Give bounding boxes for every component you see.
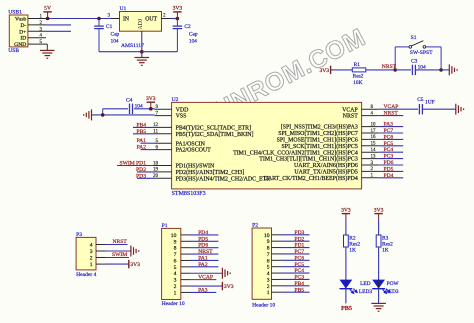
svg-text:UART_TX/AIN5(HS)PD5: UART_TX/AIN5(HS)PD5 (294, 169, 358, 176)
wire net PC3 (379, 158, 404, 160)
net label NRST at R1 (382, 64, 397, 70)
wire P1 VCAP (190, 279, 216, 281)
svg-text:PD3: PD3 (136, 173, 146, 179)
net label PC5 (384, 141, 394, 147)
ground GND of USB1 (40, 50, 55, 58)
svg-text:PD5: PD5 (384, 166, 394, 172)
svg-text:PD2(HS)/AIN3[TIM2_CH3]: PD2(HS)/AIN3[TIM2_CH3] (176, 169, 245, 176)
svg-text:[SPI_NSS]TIM2_CH3/(HS)PA3: [SPI_NSS]TIM2_CH3/(HS)PA3 (281, 124, 358, 131)
net label SWIM at P3 (112, 252, 127, 258)
U2 right pin numbers (371, 105, 377, 179)
resistor R3 Res2 1K (376, 235, 393, 253)
svg-text:C2: C2 (184, 24, 191, 30)
net label PB5 (136, 129, 146, 135)
wire net PC7 (379, 132, 404, 134)
svg-text:PD1(HS)/SWIN: PD1(HS)/SWIN (176, 163, 215, 170)
wire P1 PA1 (190, 259, 218, 261)
svg-text:3V3: 3V3 (130, 262, 140, 268)
net label PD1 (136, 161, 146, 167)
wire net PA3 (379, 126, 404, 128)
ground of regulator ADJ rail (135, 58, 150, 66)
wire net PB4 (133, 126, 155, 128)
capacitor C2 104 (173, 19, 198, 52)
net label PD2 at P2 (294, 236, 304, 242)
wire NRST node to C3 (395, 69, 411, 71)
svg-text:Header 4: Header 4 (76, 272, 97, 278)
svg-text:Res2: Res2 (353, 74, 364, 80)
power 3V3 at P1 (222, 282, 233, 290)
ground at P3 pin3 (131, 246, 139, 257)
svg-text:STM8S103F3: STM8S103F3 (172, 191, 206, 197)
svg-text:3: 3 (267, 277, 270, 283)
voltage regulator U1 AMS1117 (120, 6, 162, 49)
svg-text:1UF: 1UF (425, 100, 435, 106)
wire P3 SWIM (106, 257, 130, 259)
wire P2 PC4 (281, 272, 310, 274)
wire 3V3 to R3 (378, 219, 380, 235)
wire P2 PC7 (281, 253, 310, 255)
svg-text:PB4(T)/I2C_SCL[TADC_ETR]: PB4(T)/I2C_SCL[TADC_ETR] (176, 125, 251, 132)
net label PA3 at P1 (198, 287, 208, 293)
wire P2 PD2 (281, 240, 310, 242)
svg-text:P1: P1 (162, 223, 168, 229)
svg-text:PA2/OSCOUT: PA2/OSCOUT (176, 148, 212, 154)
svg-text:PD4: PD4 (198, 230, 208, 236)
switch S1 SW-SPST (395, 35, 441, 70)
U1 pin numbers 3 2 1 (108, 14, 167, 19)
wire P1 PD4 (190, 234, 218, 236)
svg-text:9: 9 (267, 239, 270, 245)
wire ADJ down to ground rail (141, 40, 143, 58)
net label SWIM on PD1 wire (120, 161, 135, 167)
svg-text:1K: 1K (349, 247, 356, 253)
svg-text:PC7: PC7 (294, 249, 304, 255)
svg-text:PA1: PA1 (137, 138, 147, 144)
wire net PD5 (379, 170, 404, 172)
connector P1 Header 10 (162, 223, 185, 307)
ground at power LED (371, 303, 386, 311)
wire P1 PA3 (190, 291, 216, 293)
net label PB4 at P2 (294, 281, 304, 287)
wire P1 PD5 (190, 240, 218, 242)
wire R1 to NRST node (366, 69, 395, 71)
svg-text:PC6: PC6 (294, 255, 304, 261)
net label PB4 (136, 122, 146, 128)
svg-text:P3: P3 (76, 232, 82, 238)
ground at VCAP filter (456, 104, 464, 115)
wire NRST at U2 (379, 115, 404, 117)
svg-text:IN: IN (123, 16, 130, 22)
capacitor C5 1UF (417, 97, 434, 115)
svg-text:3V3: 3V3 (224, 284, 234, 290)
wire net PA1 (141, 142, 155, 144)
svg-text:PD5: PD5 (198, 236, 208, 242)
svg-text:1: 1 (174, 290, 177, 296)
svg-text:PB5: PB5 (341, 305, 352, 312)
net label PD6 at P1 (198, 243, 208, 249)
wire C4 branch down to VSS rail (102, 109, 104, 115)
net label PD1 at P2 (294, 243, 304, 249)
svg-text:PC5: PC5 (384, 141, 394, 147)
svg-text:10: 10 (171, 233, 177, 239)
wire POW cathode down (378, 288, 380, 303)
svg-text:Vusb: Vusb (15, 17, 27, 23)
svg-text:PB5(T)/I2C_SDA[TIM1_BKIN]: PB5(T)/I2C_SDA[TIM1_BKIN] (176, 131, 254, 138)
svg-text:S1: S1 (411, 35, 417, 41)
U1 ADJ pin stub (141, 31, 143, 40)
wire net PD3 (137, 177, 155, 179)
wire P1 pin4 to ground (190, 272, 222, 274)
power 3V3 feeding R1 (319, 66, 330, 74)
microcontroller U2 STM8S103F3 (172, 97, 362, 197)
LED D2 power LED3 (372, 280, 399, 295)
wire P3 NRST (106, 244, 128, 246)
svg-text:ID: ID (20, 36, 26, 42)
svg-text:TIM1_CH3[TLI][TIM1_CH1N](HS)PC: TIM1_CH3[TLI][TIM1_CH1N](HS)PC3 (259, 156, 358, 163)
svg-text:PC4: PC4 (294, 268, 304, 274)
svg-text:C3: C3 (411, 59, 418, 65)
svg-text:104: 104 (189, 39, 197, 45)
svg-text:OUT: OUT (145, 16, 157, 22)
svg-text:PB4: PB4 (136, 122, 146, 128)
svg-text:PA2: PA2 (137, 145, 147, 151)
svg-text:D+: D+ (19, 29, 26, 35)
svg-text:PB5: PB5 (136, 129, 146, 135)
svg-text:PC3: PC3 (384, 154, 394, 160)
power 3V3 at U2 VDD (146, 96, 156, 109)
capacitor C3 104 (411, 59, 426, 76)
svg-text:NRST: NRST (343, 114, 358, 120)
P2 pin stubs (272, 235, 282, 292)
svg-text:C5: C5 (417, 97, 424, 103)
svg-text:VCAP: VCAP (384, 104, 399, 110)
svg-text:PB4: PB4 (294, 281, 304, 287)
wire net PC5 (379, 145, 404, 147)
svg-text:3V3: 3V3 (374, 208, 384, 214)
svg-text:PD6: PD6 (384, 160, 394, 166)
net label NRST at U2 (384, 111, 399, 117)
USB1 pin stubs (28, 19, 48, 45)
svg-text:3V3: 3V3 (319, 68, 329, 74)
svg-text:Cap: Cap (111, 32, 120, 38)
wire net PD2 (137, 171, 155, 173)
svg-text:PD1: PD1 (136, 161, 146, 167)
svg-text:3V3: 3V3 (146, 96, 156, 102)
svg-text:10: 10 (264, 233, 270, 239)
net label PA2 at P1 (198, 262, 208, 268)
svg-text:PD3: PD3 (294, 230, 304, 236)
net label PC3 (384, 154, 394, 160)
wire LED cathode down (345, 288, 347, 303)
wire 3V3 to R1 (331, 69, 353, 71)
net label PD6 (384, 160, 394, 166)
svg-text:5V: 5V (44, 6, 51, 12)
svg-text:PD3(HS)/AIN4/TIM2_CH2/ADC_ETR: PD3(HS)/AIN4/TIM2_CH2/ADC_ETR (176, 175, 271, 182)
wire to NRST ground (441, 69, 449, 71)
U1 OUT pin stub (162, 18, 171, 20)
svg-text:UART_RX/AIN6(HS)PD6: UART_RX/AIN6(HS)PD6 (294, 162, 358, 169)
U2 left pin numbers (153, 105, 159, 179)
port label PB5 (341, 305, 352, 312)
connector P2 Header 10 (252, 223, 275, 309)
svg-text:PC3: PC3 (294, 275, 304, 281)
svg-text:PC5: PC5 (294, 262, 304, 268)
svg-text:VSS: VSS (176, 114, 187, 120)
wire P3 pin1 to 3V3 (106, 263, 129, 265)
svg-text:PD2: PD2 (294, 236, 304, 242)
junction C3 ground node (439, 68, 443, 72)
svg-text:AMS1117: AMS1117 (121, 43, 144, 49)
resistor R2 Res2 1K (344, 235, 361, 253)
svg-text:PC4: PC4 (384, 147, 394, 153)
net label PA1 (137, 138, 147, 144)
svg-text:ADJ: ADJ (138, 18, 144, 29)
wire C3 to ground node (415, 69, 441, 71)
net label PC5 at P2 (294, 262, 304, 268)
svg-text:SWIM: SWIM (112, 252, 127, 258)
U2 right pin stubs (362, 109, 379, 178)
wire USB D+ (46, 30, 71, 32)
svg-text:1: 1 (90, 262, 93, 268)
wire USB GND to ground (46, 44, 48, 50)
net label PA2 (137, 145, 147, 151)
wire VSS rail to left ground (92, 114, 155, 116)
net label PC6 (384, 134, 394, 140)
P1 pin stubs (181, 235, 190, 293)
svg-text:1K: 1K (382, 247, 389, 253)
wire P2 PC5 (281, 266, 310, 268)
net label PD2 (136, 167, 146, 173)
net label PC4 at P2 (294, 268, 304, 274)
P3 pin stubs (96, 245, 106, 265)
wire P1 NRST (190, 253, 218, 255)
wire USB D- (46, 24, 71, 26)
junction VSS C4 node (101, 113, 105, 117)
ground at P1 pin4 (222, 268, 230, 279)
svg-text:POW: POW (387, 281, 400, 287)
svg-text:R1: R1 (354, 62, 361, 68)
svg-text:104: 104 (111, 39, 119, 45)
svg-text:Header 10: Header 10 (162, 301, 185, 307)
svg-text:4: 4 (267, 271, 270, 277)
wire U1 OUT to 3V3 node (171, 18, 178, 20)
svg-text:Header 10: Header 10 (252, 302, 275, 308)
wire P2 PC3 (281, 278, 310, 280)
wire C4 to 3V3 to VDD pin (134, 108, 155, 110)
svg-text:2: 2 (174, 284, 177, 290)
net label PC7 at P2 (294, 249, 304, 255)
svg-text:LED3: LED3 (359, 289, 372, 295)
net label NRST at P1 (198, 249, 213, 255)
power 3V3 at POW (374, 208, 384, 219)
wire net PD6 (379, 164, 404, 166)
svg-text:4: 4 (90, 243, 93, 249)
svg-text:U1: U1 (120, 6, 127, 12)
net label PD4 (384, 173, 394, 179)
svg-text:SPI_MISO[TIM1_CH2](HS)PC7: SPI_MISO[TIM1_CH2](HS)PC7 (278, 130, 358, 137)
net label PD5 (384, 166, 394, 172)
ground at VSS rail (84, 109, 92, 120)
connector USB1 (8, 10, 28, 55)
svg-text:PD2: PD2 (136, 167, 146, 173)
svg-text:P2: P2 (252, 223, 258, 229)
svg-text:PD6: PD6 (198, 243, 208, 249)
ground of reset circuit (449, 64, 457, 75)
svg-text:1: 1 (267, 290, 270, 296)
svg-text:6: 6 (267, 258, 270, 264)
wire P1 pin2 to 3V3 (190, 285, 222, 287)
power 3V3 at P3 (129, 260, 140, 268)
wire C4 left segment (103, 108, 128, 110)
net label VCAP at P1 (198, 275, 213, 281)
svg-text:D-: D- (20, 23, 26, 29)
svg-text:SPI_MOSE[TIM1_CH1](HS)PC6: SPI_MOSE[TIM1_CH1](HS)PC6 (277, 137, 358, 144)
svg-text:PB5: PB5 (294, 287, 304, 293)
net label PD3 (136, 173, 146, 179)
junction ADJ ground rail (140, 50, 144, 54)
svg-text:2: 2 (267, 284, 270, 290)
wire R2 to LED (345, 247, 347, 280)
net label PB5 at P2 (294, 287, 304, 293)
svg-text:PC7: PC7 (384, 128, 394, 134)
svg-text:SW-SPST: SW-SPST (410, 50, 433, 56)
wire P1 PA2 (190, 266, 218, 268)
junction 5V node (46, 17, 50, 21)
svg-text:SPI_SCK[TIM1_CH1](HS)PC5: SPI_SCK[TIM1_CH1](HS)PC5 (282, 143, 358, 150)
svg-text:VDD: VDD (176, 107, 190, 113)
power 3V3 at regulator output (173, 6, 183, 19)
svg-text:8: 8 (174, 246, 177, 252)
net label PA3 (384, 122, 394, 128)
net label PC7 (384, 128, 394, 134)
wire net PC4 (379, 151, 404, 153)
svg-text:PC6: PC6 (384, 134, 394, 140)
wire ground rail C1 to C2 (99, 51, 177, 53)
svg-text:VCAP: VCAP (342, 107, 358, 113)
svg-text:UART_CK/TIM2_CH1/BEEP(HS)PD4: UART_CK/TIM2_CH1/BEEP(HS)PD4 (264, 175, 358, 182)
capacitor C1 104 (94, 19, 119, 52)
svg-text:8: 8 (267, 246, 270, 252)
net label PA1 at P1 (198, 255, 208, 261)
svg-text:2: 2 (90, 256, 93, 262)
junction C1 top node (97, 17, 101, 21)
svg-text:LED3: LED3 (385, 289, 398, 295)
svg-text:C4: C4 (126, 98, 133, 104)
svg-text:Cap: Cap (189, 32, 198, 38)
watermark SUNROM.COM (195, 23, 371, 133)
svg-text:3V3: 3V3 (173, 6, 183, 12)
svg-text:NRST: NRST (384, 111, 399, 117)
net label PC6 at P2 (294, 255, 304, 261)
svg-text:5: 5 (174, 265, 177, 271)
wire P2 PD3 (281, 234, 310, 236)
svg-text:7: 7 (267, 252, 270, 258)
svg-text:3V3: 3V3 (341, 208, 351, 214)
svg-text:LED: LED (360, 281, 371, 287)
power 3V3 at LED (341, 208, 351, 219)
svg-text:10K: 10K (353, 80, 362, 86)
U2 left pin names (176, 107, 271, 182)
svg-text:GND: GND (14, 42, 26, 48)
wire 3V3 to R2 (345, 219, 347, 235)
wire P2 PB5 (281, 291, 310, 293)
svg-text:SWIM: SWIM (120, 161, 135, 167)
wire Vusb 5V rail to regulator IN (48, 18, 111, 20)
U2 right pin names (233, 107, 358, 182)
wire P2 PD1 (281, 247, 310, 249)
wire P2 PB4 (281, 285, 310, 287)
net label PD5 at P1 (198, 236, 208, 242)
wire VCAP to C5 (379, 108, 418, 110)
wire net PA2 (141, 149, 155, 151)
net label PD3 at P2 (294, 230, 304, 236)
svg-text:VCAP: VCAP (198, 275, 213, 281)
connector P3 Header 4 (76, 232, 97, 278)
svg-text:C1: C1 (106, 24, 113, 30)
svg-text:PD1: PD1 (294, 243, 304, 249)
wire C5 to ground (422, 108, 455, 110)
svg-text:6: 6 (174, 258, 177, 264)
svg-text:3: 3 (90, 249, 93, 255)
svg-text:PA1: PA1 (198, 255, 208, 261)
svg-text:USB1: USB1 (8, 10, 22, 16)
svg-text:TIM1_CH4/CLK_CCO/AIN2[TIM1_CH2: TIM1_CH4/CLK_CCO/AIN2[TIM1_CH2](HS)PC4 (233, 149, 358, 156)
U2 left pin stubs (155, 109, 172, 178)
svg-text:4: 4 (174, 271, 177, 277)
net label VCAP at U2 (384, 104, 399, 110)
svg-text:PA3: PA3 (198, 287, 208, 293)
U1 IN pin stub (111, 18, 120, 20)
svg-text:USB: USB (8, 48, 19, 54)
junction 3V3 C2 node (176, 17, 180, 21)
LED D1 indicator LED3 (340, 280, 373, 295)
svg-text:7: 7 (174, 252, 177, 258)
net label PC3 at P2 (294, 275, 304, 281)
svg-text:3: 3 (174, 278, 177, 284)
svg-text:PA2: PA2 (198, 262, 208, 268)
wire net PB5 (133, 133, 155, 135)
wire P3 pin3 to ground (106, 250, 131, 252)
junction 3V3 VDD node (149, 107, 153, 111)
svg-text:PA3: PA3 (384, 122, 394, 128)
wire net PD4 (379, 177, 404, 179)
junction NRST left node (393, 68, 397, 72)
resistor R1 Res2 10K (352, 62, 366, 86)
svg-text:U2: U2 (172, 97, 179, 103)
wire R3 to LED (378, 247, 380, 280)
svg-text:NRST: NRST (198, 249, 213, 255)
net label PC4 (384, 147, 394, 153)
wire P1 PD6 (190, 247, 218, 249)
wire P2 PC6 (281, 259, 310, 261)
wire net PC6 (379, 138, 404, 140)
svg-text:PD4: PD4 (384, 173, 394, 179)
svg-text:NRST: NRST (113, 239, 128, 245)
wire net PD1 (117, 165, 155, 167)
svg-text:PA1/OSCIN: PA1/OSCIN (176, 141, 206, 147)
capacitor C4 104 (126, 98, 143, 114)
net label PD4 at P1 (198, 230, 208, 236)
svg-text:5: 5 (267, 265, 270, 271)
svg-text:9: 9 (174, 239, 177, 245)
net label NRST at P3 (113, 239, 128, 245)
power +5V (43, 6, 51, 19)
USB1 pin numbers 1-5 (40, 15, 43, 46)
